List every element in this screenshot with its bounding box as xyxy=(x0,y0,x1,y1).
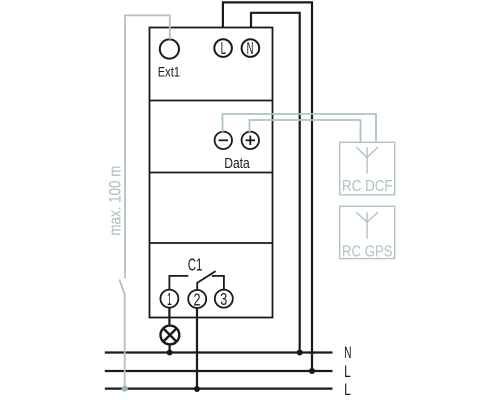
svg-text:2: 2 xyxy=(194,289,201,309)
divider 2 xyxy=(150,172,273,174)
svg-text:Data: Data xyxy=(224,156,250,172)
bus L middle xyxy=(105,370,333,372)
antenna RC DCF xyxy=(356,147,378,173)
svg-text:RC GPS: RC GPS xyxy=(342,244,393,261)
terminal 2 xyxy=(188,290,206,308)
svg-text:1: 1 xyxy=(167,289,172,309)
terminal 1 xyxy=(160,290,178,308)
wire terminal 1 to lamp xyxy=(168,308,170,326)
wire N terminal to N bus xyxy=(251,13,300,353)
svg-text:3: 3 xyxy=(220,289,227,309)
junction dot grey on bottom L bus xyxy=(122,386,128,392)
terminal 3 xyxy=(215,290,233,308)
junction dot terminal 2 on bottom L bus xyxy=(194,386,200,392)
svg-text:RC DCF: RC DCF xyxy=(342,178,393,195)
switch fixed contact 1 xyxy=(169,276,188,290)
wire L terminal to L bus xyxy=(223,2,312,371)
switch blade (terminal 2) xyxy=(197,271,215,290)
switch fixed contact 3 xyxy=(212,276,224,290)
terminal Data plus xyxy=(242,132,259,149)
terminal Ext1 xyxy=(160,39,179,58)
wire lamp to N bus xyxy=(169,344,171,352)
terminal Data minus xyxy=(215,132,232,149)
svg-text:L: L xyxy=(221,38,227,58)
RC GPS box xyxy=(340,206,395,258)
wire terminal 2 to bottom L bus xyxy=(196,308,198,389)
lamp xyxy=(161,326,180,345)
wire Data plus to RC DCF xyxy=(250,120,361,142)
svg-text:L: L xyxy=(344,380,351,399)
junction dot N xyxy=(297,350,303,356)
divider 3 xyxy=(150,242,273,244)
wire Data minus to RC DCF xyxy=(223,114,377,142)
wire Ext1 (grey, external switch loop) xyxy=(119,15,170,388)
junction dot lamp on N bus xyxy=(167,350,173,356)
bus L bottom xyxy=(105,388,333,390)
antenna RC GPS xyxy=(356,212,378,239)
svg-text:L: L xyxy=(344,362,351,381)
device outline xyxy=(150,28,273,318)
RC DCF box xyxy=(340,142,395,195)
svg-text:Ext1: Ext1 xyxy=(158,63,180,79)
junction dot L xyxy=(309,368,315,374)
terminal L xyxy=(214,39,232,57)
svg-text:N: N xyxy=(247,38,254,58)
divider 1 xyxy=(150,100,273,102)
terminal N xyxy=(242,39,260,57)
bus N xyxy=(105,351,333,353)
svg-text:N: N xyxy=(344,343,351,362)
svg-text:C1: C1 xyxy=(188,254,203,274)
svg-text:max. 100 m: max. 100 m xyxy=(107,166,125,236)
